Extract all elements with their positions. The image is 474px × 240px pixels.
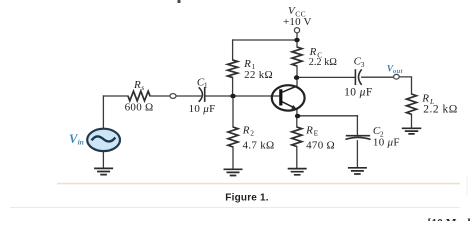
svg-text:R: R (133, 79, 141, 91)
svg-text:22 kΩ: 22 kΩ (244, 69, 273, 81)
svg-text:out: out (393, 68, 403, 75)
svg-text:470 Ω: 470 Ω (306, 139, 335, 151)
svg-text:R: R (305, 124, 313, 136)
svg-text:E: E (314, 129, 319, 138)
svg-text:10 μF: 10 μF (189, 103, 216, 115)
svg-text:R: R (242, 124, 250, 136)
svg-text:2: 2 (250, 129, 254, 138)
svg-text:600 Ω: 600 Ω (125, 101, 154, 113)
svg-text:[10 Marks]: [10 Marks] (428, 217, 474, 221)
svg-text:+10 V: +10 V (283, 16, 312, 28)
svg-text:2.2 kΩ: 2.2 kΩ (309, 57, 338, 68)
svg-text:Figure 1.: Figure 1. (225, 192, 268, 203)
svg-text:3: 3 (361, 60, 365, 69)
svg-text:4.7 kΩ: 4.7 kΩ (243, 139, 275, 151)
svg-text:2.2 kΩ: 2.2 kΩ (423, 104, 458, 116)
svg-text:in: in (78, 138, 84, 147)
svg-text:1: 1 (204, 81, 208, 90)
svg-text:10 μF: 10 μF (373, 137, 400, 149)
svg-text:10 μF: 10 μF (344, 86, 373, 98)
svg-text:s: s (141, 83, 144, 92)
